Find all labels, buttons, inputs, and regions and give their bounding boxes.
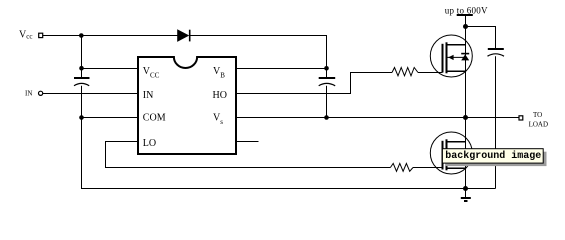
node left-rail/COM junction [79,115,84,120]
svg-text:Vcc: Vcc [19,29,32,40]
svg-text:LO: LO [143,138,156,149]
wire VB pin [236,68,327,70]
terminal IN [39,91,43,95]
capacitor C1 Vcc decoupling [74,78,90,86]
svg-text:HO: HO [213,90,227,101]
wire rail to bus cap [466,27,496,49]
wire left rail vertical [81,36,83,189]
node VB/bootstrap-cap junction [324,66,329,71]
wire HO route [236,73,392,94]
svg-text:IN: IN [25,89,32,97]
wire bootstrap branch vertical [326,69,328,118]
svg-text:LOAD: LOAD [529,120,548,128]
diode D1 bootstrap [178,30,190,42]
wire R1 to Q1 gate [418,72,443,74]
terminal Vcc [39,33,43,37]
wire ground return rail [81,188,496,190]
capacitor C3 bus [488,49,505,56]
node output junction [463,115,468,120]
capacitor C2 bootstrap [319,78,336,86]
wire R2 to Q2 gate [413,167,443,169]
terminal TO LOAD [519,116,523,120]
wire top rail to diode [81,35,177,37]
svg-text:COM: COM [143,112,166,123]
node left-rail/Vcc-pin junction [79,66,84,71]
wire Q1 drain-source line [465,27,467,118]
wire Q2 drain-source line [465,118,467,189]
node Vcc/left-rail junction [79,33,84,38]
wire Vs route to load [236,117,519,119]
mosfet Q2 low-side [430,132,472,174]
wire bus cap to ground rail [495,56,497,188]
node ground junction [463,186,468,191]
resistor R2 low-side gate [390,163,413,171]
node 600V rail junction [463,24,468,29]
svg-text:background image: background image [445,150,541,162]
node bootstrap-cap/Vs junction [324,115,329,120]
rail terminal bar [457,14,473,16]
ground symbol [461,189,471,202]
IC U1 gate driver [138,57,236,154]
wire Vcc pin [82,68,139,70]
resistor R1 high-side gate [392,68,418,76]
wire Vcc terminal to junction [43,35,82,37]
wire diode cathode to bootstrap branch [191,36,327,69]
svg-text:TO: TO [533,111,542,119]
tooltip background image box [442,149,546,166]
label TO LOAD [529,111,548,128]
wire rail bar to junction [465,15,467,27]
mosfet Q1 high-side [430,35,472,77]
svg-text:IN: IN [143,90,154,101]
stub unused pin [236,141,259,143]
wire COM pin [82,117,139,119]
wire LO route [106,142,391,168]
wire IN pin [43,93,138,95]
